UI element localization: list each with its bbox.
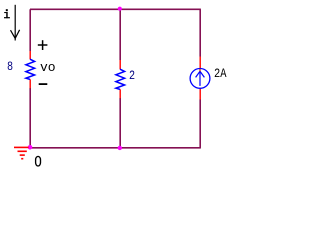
current source I1 arrow xyxy=(196,71,205,86)
wire right branch lower xyxy=(199,100,201,148)
wire top bus xyxy=(30,8,201,10)
junction node bottom middle xyxy=(118,146,122,150)
wire middle branch upper xyxy=(119,9,121,60)
wire left branch upper xyxy=(29,9,31,51)
current source I1 pins (red) xyxy=(199,57,201,100)
label i (drawn glyph) xyxy=(4,9,10,18)
ground symbol bars xyxy=(14,147,29,158)
label vo xyxy=(40,60,56,75)
wire left branch lower xyxy=(29,88,31,148)
current source I1 circle xyxy=(190,69,210,89)
current source I1 top pin tick xyxy=(199,69,201,72)
wire middle branch lower xyxy=(119,98,121,148)
label 2 (R2 value) xyxy=(129,68,135,83)
label 0 (ground net, drawn glyph) xyxy=(36,156,41,166)
current arrow i (annotation) xyxy=(11,5,20,41)
junction node top middle xyxy=(118,7,122,11)
resistor R1 pins (red) xyxy=(29,51,31,88)
wire right branch upper xyxy=(199,9,201,56)
resistor R2 zigzag 2 ohm xyxy=(116,69,125,89)
label 8 (R1 value) xyxy=(7,59,13,74)
minus sign annotation xyxy=(39,83,48,85)
label 2A (I1 value) xyxy=(214,66,226,81)
resistor R1 zigzag 8 ohm xyxy=(26,59,35,79)
resistor R2 pins (red) xyxy=(119,60,121,98)
plus sign annotation xyxy=(38,40,48,50)
wire bottom bus xyxy=(30,147,201,149)
junction node ground xyxy=(28,145,33,150)
